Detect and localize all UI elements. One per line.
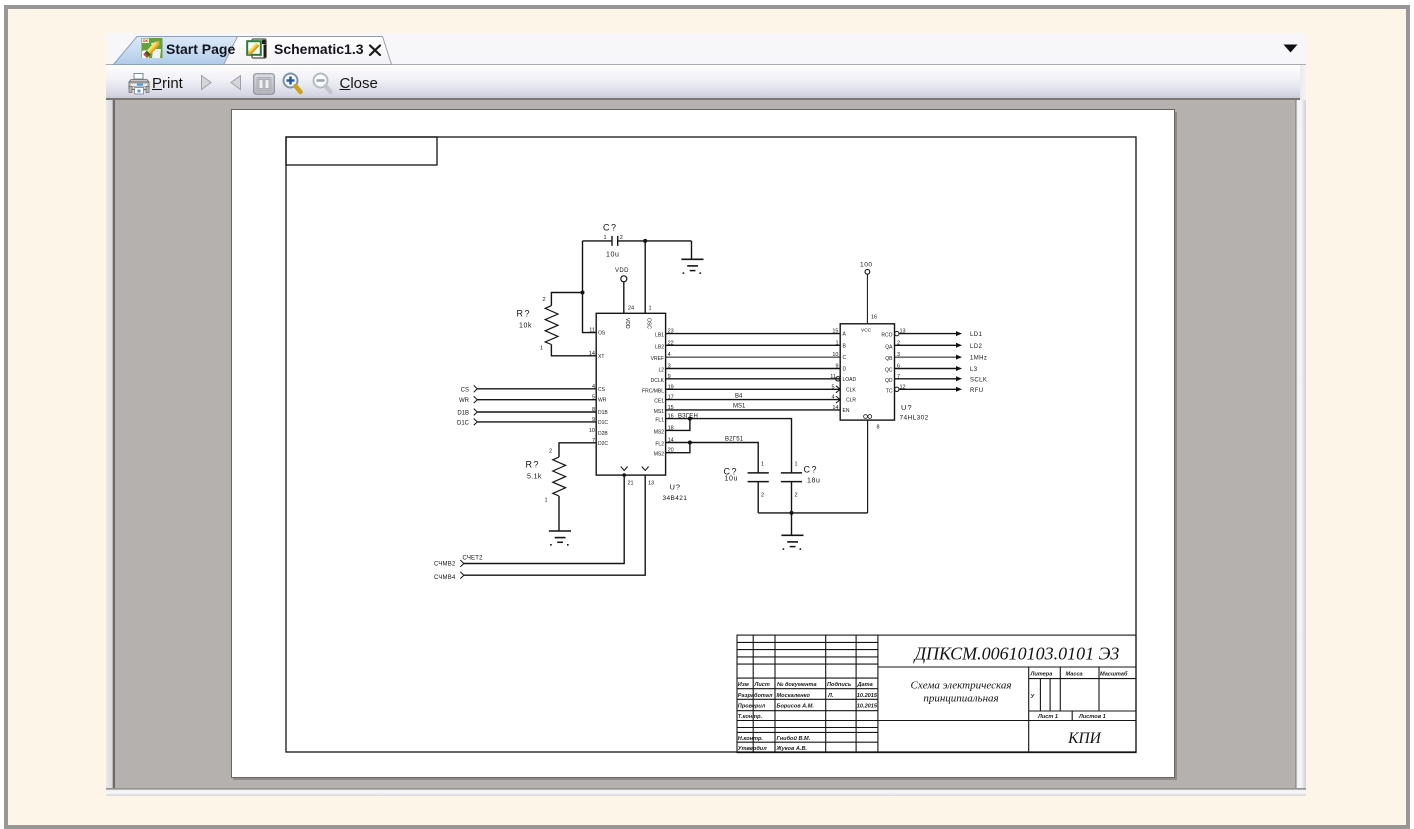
svg-text:MS2: MS2 [654,429,665,435]
svg-text:QA: QA [885,344,893,350]
svg-text:10: 10 [589,428,595,434]
svg-text:Лист 1: Лист 1 [1037,714,1058,720]
svg-text:СЧЕТ2: СЧЕТ2 [463,556,484,562]
svg-text:ДПКСМ.00610103.0101 Э3: ДПКСМ.00610103.0101 Э3 [913,644,1120,664]
input connector WR [459,396,596,404]
svg-text:CLK: CLK [846,387,856,393]
svg-text:1: 1 [761,462,764,468]
svg-text:10k: 10k [519,323,532,330]
svg-text:1: 1 [545,498,548,504]
op IC U1 body [596,313,665,475]
output wire L3 [895,366,978,373]
wire R1 top to junction on C1 left vertical [551,293,582,306]
wire FRC net [666,388,841,390]
svg-text:10u: 10u [606,252,619,259]
counter IC U2 body [840,324,894,420]
svg-text:8: 8 [877,425,880,431]
wire C1 left vertical down to U1 pin 11 [583,241,597,333]
svg-text:OS: OS [598,331,606,337]
svg-text:C?: C? [804,465,819,475]
svg-text:2: 2 [620,235,623,241]
svg-text:24: 24 [628,306,634,312]
wire U2 pin 8 to ground rail [867,420,869,513]
wire U1 pin 21 down to counter input 1 [464,475,625,563]
printer icon [128,72,150,95]
svg-text:L2: L2 [658,368,664,374]
U1 right pin names [642,333,665,458]
svg-text:Борисов А.М.: Борисов А.М. [777,704,815,710]
svg-text:1MHz: 1MHz [970,356,987,362]
wire VDD to U1 pin 24 [623,282,625,314]
wire MS2 up to FL1 net [666,419,690,431]
svg-text:СЧМВ2: СЧМВ2 [434,562,456,568]
svg-text:U?: U? [670,483,682,492]
U2 pin 4 clock mark [836,396,840,403]
svg-text:2: 2 [549,449,552,455]
output wire SCLK [895,376,988,383]
input connector SCHMV2 [434,560,464,567]
svg-text:Листов 1: Листов 1 [1078,714,1106,720]
wire B4 net [666,399,841,401]
wire FL2 to capacitor C2 [666,443,759,473]
svg-text:EN: EN [843,408,850,414]
capacitor C3 [781,473,802,482]
power terminal 100 for U2 [860,262,873,324]
svg-text:13: 13 [648,481,654,487]
svg-text:18u: 18u [807,478,820,485]
svg-text:74HL302: 74HL302 [900,415,929,422]
svg-text:10: 10 [832,352,838,358]
U2 pin 5 clock mark [836,386,840,393]
resistor R1 [545,306,558,345]
svg-text:Изм: Изм [738,682,750,688]
svg-text:MS1: MS1 [654,409,665,415]
wire WR to U1 pin 5 [477,399,596,401]
svg-text:WR: WR [598,398,607,404]
svg-text:Лист: Лист [754,682,770,688]
svg-text:B: B [843,343,847,349]
svg-text:LOAD: LOAD [843,377,857,383]
svg-text:CLR: CLR [846,398,856,404]
wire VREF net (thin) [666,356,841,358]
schematic tab icon [246,37,269,60]
svg-text:QC: QC [885,368,893,374]
wire FL1 to capacitor C3 [666,419,792,473]
svg-text:RCO: RCO [881,333,892,339]
wire DCLK net [666,378,841,380]
svg-text:1: 1 [540,346,543,352]
wire L2 net [666,368,841,370]
svg-text:MS1: MS1 [733,404,746,410]
wire MS1 net [666,409,841,411]
wire U1 pin 7 to R2 [559,443,596,457]
svg-text:10u: 10u [725,476,738,483]
svg-text:14: 14 [832,405,838,411]
svg-text:QD: QD [885,378,893,384]
svg-text:U?: U? [901,403,913,412]
start page icon [141,37,163,59]
svg-text:У: У [1031,694,1036,700]
wire C2 bottom to ground rail [757,482,759,513]
svg-text:SCLK: SCLK [970,377,987,383]
svg-text:WR: WR [459,398,470,404]
svg-text:D1C: D1C [598,420,608,426]
svg-text:5.1k: 5.1k [527,474,542,481]
node junction R1/C1 vertical [581,291,585,295]
wire from C1 pin2 to ground GND1 [618,240,692,242]
svg-text:DCLK: DCLK [651,378,665,384]
svg-text:15: 15 [832,329,838,335]
svg-text:D1B: D1B [457,411,469,417]
pages button [253,73,275,95]
svg-text:9: 9 [835,364,838,370]
input connector D1C [457,419,596,427]
wire power to U2 pin 16 [866,274,868,324]
svg-text:OSC: OSC [645,318,651,329]
svg-text:QB: QB [885,356,893,362]
svg-text:СЧМВ4: СЧМВ4 [434,575,456,581]
dropdown arrow [1283,44,1298,53]
title block right structure [878,666,1136,668]
svg-text:принципиальная: принципиальная [923,693,998,705]
svg-text:MS2: MS2 [654,452,665,458]
svg-text:C: C [843,355,847,361]
bus wires U1 to U2 [666,334,841,410]
U2 pin 11 inverter bubble [836,377,840,381]
svg-text:CS: CS [598,387,606,393]
U1 right pin numbers [668,329,674,454]
svg-text:21: 21 [628,481,634,487]
svg-text:R?: R? [526,460,541,470]
svg-text:C?: C? [603,223,618,233]
svg-text:Масштаб: Масштаб [1100,671,1128,678]
svg-text:Проверил: Проверил [738,704,766,710]
svg-text:КПИ: КПИ [1067,730,1101,747]
svg-text:34B421: 34B421 [663,495,688,502]
node junction at U1 pin 21 [622,473,626,477]
svg-text:В2Г51: В2Г51 [725,437,744,443]
svg-text:LD1: LD1 [970,332,982,338]
svg-text:1: 1 [649,306,652,312]
U2 pin 12 inverter bubble [895,387,899,391]
U1 left pin numbers [589,328,595,444]
U1 bottom pin 21 marker [621,467,628,471]
svg-text:B4: B4 [735,393,743,399]
svg-text:XT: XT [598,354,604,360]
node junction FL2/pin20 [688,441,692,445]
title block left verticals [752,635,754,753]
svg-text:R?: R? [517,309,532,319]
svg-text:L3: L3 [970,367,978,373]
capacitor C1 [612,236,618,246]
ground GND1 [681,241,703,274]
svg-text:14: 14 [589,351,595,357]
svg-text:D1C: D1C [457,420,470,426]
svg-text:FRC/MBL: FRC/MBL [642,388,664,394]
U1 bottom pin 13 marker [642,467,649,471]
node junction on C1 net above U1 pin1 [643,239,647,243]
node junction ground rail [790,511,794,515]
svg-text:Л.: Л. [827,693,834,699]
svg-text:CS: CS [461,387,469,393]
svg-text:11: 11 [830,374,836,380]
nav arrows [198,74,214,91]
ground rail wire under capacitors [758,512,867,514]
drawing frame border [286,137,1136,752]
wire from C1 pin1 to left vertical [583,240,613,242]
TOOLBAR ICONS [0,0,1,1]
svg-text:2: 2 [795,493,798,499]
wire C3 bottom to ground rail [791,482,793,513]
output wire LD1 [899,331,982,338]
U1 left pin names [598,331,608,447]
wire C1 net down to U1 pin 1 [644,241,646,313]
title block left horizontals [737,641,878,643]
svg-text:D: D [843,367,847,373]
node junction FL1/MS2 [688,417,692,421]
svg-text:VDD: VDD [624,318,630,329]
svg-text:1: 1 [795,462,798,468]
svg-text:Жуков А.В.: Жуков А.В. [776,746,808,752]
zoom in [280,71,305,96]
svg-text:5: 5 [831,384,834,390]
ground GND2 [781,513,803,550]
zoom out [310,71,335,96]
svg-text:1: 1 [604,235,607,241]
svg-text:2: 2 [761,493,764,499]
svg-text:10.2015: 10.2015 [857,704,878,710]
U2 ground pin glyph [864,415,872,419]
svg-text:Подпись: Подпись [827,682,851,688]
svg-text:OK: OK [143,39,149,43]
wire R2 bottom to ground GND3 [558,496,560,531]
svg-text:CE1: CE1 [654,399,664,405]
title block [737,635,1136,753]
svg-text:Литера: Литера [1030,672,1053,678]
svg-text:D2C: D2C [598,441,608,447]
svg-text:Гнибой В.М.: Гнибой В.М. [777,735,811,742]
output wire 1MHz (thin) [895,355,988,362]
svg-text:Схема электрическая: Схема электрическая [911,680,1012,692]
svg-text:FL2: FL2 [655,442,664,448]
TABS [0,0,1,1]
ground GND3 [549,531,571,546]
svg-text:Москаленко: Москаленко [777,693,811,699]
wire D1C to U1 pin 9 [477,421,596,423]
svg-text:LD2: LD2 [970,344,982,350]
U2 pin 13 inverter bubble [895,331,899,335]
svg-text:11: 11 [589,328,595,334]
svg-text:1: 1 [835,340,838,346]
svg-text:Т.контр.: Т.контр. [738,714,763,720]
svg-text:Утвердил: Утвердил [738,746,767,752]
svg-text:D1B: D1B [598,410,608,416]
svg-text:VREF: VREF [651,356,664,362]
svg-text:LB2: LB2 [655,344,664,350]
U2 left pin names [843,332,857,414]
svg-text:Дата: Дата [857,682,873,688]
resistor R2 [553,457,566,496]
wire pin20 up to FL2 net [666,443,690,453]
svg-text:FL1: FL1 [655,418,664,424]
wire LB2 net [666,344,841,346]
input connector CS [461,385,597,393]
svg-text:RFU: RFU [970,388,984,394]
wire LB1 net [666,333,841,335]
svg-text:D2B: D2B [598,431,608,437]
U2 left pin numbers [830,329,838,411]
svg-text:VDD: VDD [615,268,629,274]
power terminal VDD [615,268,629,313]
input connector SCHMV4 [434,572,464,581]
capacitor C2 [748,473,769,482]
svg-text:100: 100 [860,262,873,269]
svg-text:Масса: Масса [1066,672,1083,678]
svg-text:4: 4 [831,395,834,401]
title block small texts [738,671,1128,752]
svg-text:TC: TC [886,388,893,394]
wire R1 bottom to U1 pin 14 [551,345,596,356]
svg-text:Н.контр.: Н.контр. [738,736,764,742]
svg-text:Разработал: Разработал [738,692,773,699]
svg-text:LB1: LB1 [655,333,664,339]
output wire RFU [899,387,984,394]
wire U1 pin 13 down to counter input 2 [464,475,646,575]
svg-text:A: A [843,332,847,338]
svg-text:10.2015: 10.2015 [857,693,878,699]
frame top-left reference box [286,137,437,165]
wire CS to U1 pin 4 [477,388,596,390]
svg-text:№ документа: № документа [777,682,817,688]
svg-text:2: 2 [543,297,546,303]
svg-text:VCC: VCC [861,328,872,334]
wire D1B to U1 pin 8 [477,411,596,413]
output wire LD2 [895,343,983,350]
svg-text:16: 16 [871,315,877,321]
input connector D1B [457,409,596,417]
U2 right pin names [881,333,893,395]
U2 right pin numbers [897,329,906,391]
